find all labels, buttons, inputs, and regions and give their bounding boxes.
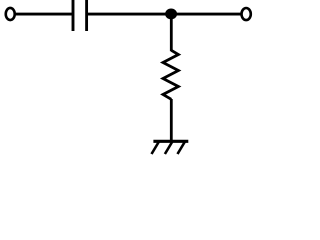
wire node down to resistor xyxy=(170,14,173,51)
wire input terminal to capacitor xyxy=(16,13,73,16)
junction dot node A xyxy=(165,9,177,20)
output terminal xyxy=(242,8,251,20)
ground hatch 2 xyxy=(165,142,173,155)
capacitor C1 right plate xyxy=(85,0,88,31)
capacitor C1 left plate xyxy=(72,0,75,31)
wire node to output terminal xyxy=(171,13,241,16)
input terminal xyxy=(6,8,15,20)
wire capacitor to node xyxy=(87,13,172,16)
ground bar xyxy=(153,140,188,143)
wire resistor to ground xyxy=(170,99,173,141)
ground hatch 1 xyxy=(152,142,160,155)
resistor R1 xyxy=(163,50,178,99)
ground hatch 3 xyxy=(178,142,186,155)
